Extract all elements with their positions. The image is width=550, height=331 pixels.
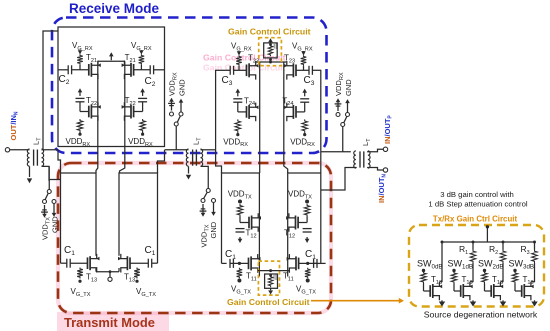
capacitor C1 b4 xyxy=(313,259,315,268)
switch node dot 2 xyxy=(483,269,486,272)
wire xfmr-box2 xyxy=(201,149,216,151)
ground arrow mid xfmr xyxy=(188,166,190,173)
capacitor gate T22 b xyxy=(138,97,147,99)
ac-ground arrow T12 b xyxy=(306,237,308,241)
wire R1 down xyxy=(472,242,474,250)
junction dot VG b4 xyxy=(306,279,310,283)
svg-text:GND: GND xyxy=(51,216,60,233)
transistor T23 b xyxy=(295,65,297,77)
wire res-T12 b xyxy=(306,217,308,223)
transistor T22 a xyxy=(88,106,90,118)
transistor T21 a xyxy=(88,64,90,76)
wire TX1 source cols xyxy=(95,268,97,272)
svg-text:3 dB gain control with: 3 dB gain control with xyxy=(440,190,514,199)
transistor T13 sw0 xyxy=(429,285,431,297)
capacitor T12 gate b xyxy=(303,228,312,230)
wire RX1 mid columns xyxy=(98,60,125,62)
TX cell2 right loop xyxy=(288,173,321,277)
capacitor C2 a xyxy=(67,65,69,74)
wire RX rail left xyxy=(42,149,59,151)
wire stub box2 right down xyxy=(320,150,322,173)
junction dot T24 a xyxy=(236,133,239,136)
wire res T24 b xyxy=(304,132,306,134)
gain control transistor mark (top) xyxy=(273,44,275,49)
wire C3b xyxy=(296,69,309,71)
junction dot rail 1 xyxy=(472,241,475,244)
wire panel rail xyxy=(442,241,535,243)
arrow to gain ctrl panel xyxy=(311,300,400,302)
bias dot VDD a xyxy=(238,200,242,204)
resistor source T24 b xyxy=(302,119,308,132)
resistor T11 bias a xyxy=(237,268,243,279)
transformer LT mid xyxy=(186,149,188,166)
svg-text:Source degeneration network: Source degeneration network xyxy=(424,310,538,320)
port OUT/IN terminal xyxy=(5,148,9,152)
wire RX1 col a down xyxy=(96,61,98,173)
resistor R1 xyxy=(470,250,476,264)
switch RX mid xyxy=(169,98,174,102)
resistor RG4 xyxy=(301,55,307,65)
transistor T13 b xyxy=(129,257,131,269)
resistor source T22 b xyxy=(140,119,146,132)
wire gate bias 4 xyxy=(303,66,305,71)
resistor T13a bias xyxy=(77,268,83,279)
transistor T24 a xyxy=(246,106,248,118)
wire C1-gate b4 xyxy=(314,262,326,264)
junction dot gc bottom xyxy=(269,269,272,272)
port IN/OUT P terminal xyxy=(383,147,387,151)
wire TX1 bottom rail xyxy=(96,271,119,273)
capacitor C3 b xyxy=(308,66,310,75)
transistor T22 b xyxy=(133,106,135,118)
wire sw-gate 0 xyxy=(423,284,425,292)
wire sw-gate 2 xyxy=(484,284,486,292)
transistor T13 sw1 xyxy=(460,285,462,297)
ac-ground arrow T24 a xyxy=(237,91,239,96)
switch node dot 0 xyxy=(422,269,425,272)
wire res b xyxy=(142,132,144,134)
wire port-left-xfmr xyxy=(10,149,30,151)
gain control dashed box (top) xyxy=(259,38,282,66)
transmit-mode highlight glow xyxy=(58,163,331,313)
junction dot VG a4 xyxy=(237,279,241,283)
resistor VDD b xyxy=(304,204,310,217)
resistor T13b bias xyxy=(134,268,140,279)
resistor source T24 a xyxy=(235,119,241,132)
wire feed up left xyxy=(42,31,59,150)
RX cell 1 outline xyxy=(58,27,165,147)
TX cell1 left loop xyxy=(61,173,97,263)
bias dot VDD b xyxy=(305,200,309,204)
wire C1a xyxy=(61,262,67,264)
wire C1-gate a4 xyxy=(222,262,227,264)
ground sw2 xyxy=(502,300,504,301)
wire cap-gate b xyxy=(142,102,144,112)
resistor SW1dB xyxy=(451,272,457,284)
wire res T24 a xyxy=(237,132,239,134)
gain control arrow (top) xyxy=(268,38,273,42)
ground sw1 xyxy=(472,300,474,301)
gain control inner rect (top) xyxy=(264,43,278,58)
switch node dot 1 xyxy=(452,269,455,272)
svg-text:Receive Mode: Receive Mode xyxy=(69,1,160,16)
capacitor C1 a xyxy=(66,259,68,268)
wire stub left edge down xyxy=(58,150,61,173)
wire C2a left xyxy=(58,69,68,71)
wire gc top to rail xyxy=(270,58,272,62)
svg-text:GND: GND xyxy=(344,79,353,96)
gain control dashed box (bottom) xyxy=(258,261,279,295)
transistor T13 sw2 xyxy=(490,285,492,297)
junction dot rail 2 xyxy=(502,241,505,244)
wire prim bottom right xyxy=(321,168,357,191)
ac-ground arrow T12 a xyxy=(239,237,241,241)
transistor T12 a xyxy=(248,217,250,229)
wire R2 down xyxy=(502,242,504,250)
wire panel feed xyxy=(486,227,488,242)
TX cell2 left loop xyxy=(222,173,260,277)
capacitor T12 gate a xyxy=(236,228,245,230)
wire prim bottom mid xyxy=(201,166,209,177)
Receive Mode dashed box xyxy=(52,18,327,154)
RF output arrow node RX1 xyxy=(110,55,112,61)
resistor RG3 xyxy=(236,55,242,65)
wire C2a right xyxy=(72,69,89,71)
wire drain sw3 xyxy=(531,281,535,283)
wire drain sw2 xyxy=(500,281,503,283)
svg-text:GND: GND xyxy=(178,79,187,96)
svg-text:Transmit Mode: Transmit Mode xyxy=(64,315,155,330)
wire gate bias 1 xyxy=(79,65,81,70)
junction dot gate a4 xyxy=(238,262,241,265)
ground sw0 xyxy=(441,300,443,301)
wire gate bias 3 xyxy=(238,66,240,71)
resistor T11 bias b xyxy=(305,268,311,279)
port IN/OUT N terminal xyxy=(383,168,387,172)
wire res-T12 a xyxy=(239,217,241,223)
ac-ground arrow T24 b xyxy=(304,91,306,96)
gain control transistor mark (bottom) xyxy=(273,275,275,280)
bias arrowhead 3 xyxy=(237,51,241,55)
junction dot rail xyxy=(269,61,272,64)
wire gate bias 2 xyxy=(140,65,142,70)
wire stub box2 left down xyxy=(216,150,222,173)
capacitor gate T22 a xyxy=(76,97,85,99)
junction dot rail 3 xyxy=(533,241,536,244)
wire cap-gate a xyxy=(79,102,81,112)
wire drain sw1 xyxy=(470,281,473,283)
switch node dot 3 xyxy=(513,269,516,272)
junction dot gate b4 xyxy=(306,262,309,265)
wire T11 source rail xyxy=(258,270,290,272)
resistor R3 xyxy=(532,250,538,264)
switch TX left xyxy=(42,214,47,218)
wire sec-bot right xyxy=(367,168,383,171)
wire cap-gate T24 b xyxy=(304,102,306,112)
bias arrowhead 4 xyxy=(301,51,305,55)
transistor T13 a xyxy=(87,257,89,269)
ground sw3 xyxy=(534,300,536,301)
wire drain sw0 xyxy=(439,281,442,283)
wire RX2 outer left xyxy=(215,70,217,150)
transistor T21 b xyxy=(133,64,135,76)
resistor SW3dB xyxy=(512,272,518,284)
resistor RG2 xyxy=(139,54,145,64)
svg-text:1 dB Step attenuation control: 1 dB Step attenuation control xyxy=(428,200,527,209)
gain control resistor (bottom) xyxy=(268,275,273,287)
transistor T24 b xyxy=(295,106,297,118)
gain control inner rect (bottom) xyxy=(265,274,278,288)
wire sw-left common xyxy=(48,166,50,181)
wire res a xyxy=(79,132,81,134)
ac-ground arrow T22 b xyxy=(142,91,144,96)
wire C1b xyxy=(152,262,158,264)
wire box2-xfmr right xyxy=(321,151,351,153)
wire RX2 col b down xyxy=(284,62,288,173)
transistor T23 a xyxy=(246,65,248,77)
wire RX2 outer right xyxy=(320,70,322,150)
wire C2b xyxy=(134,69,151,71)
resistor R2 xyxy=(500,250,506,264)
Transmit Mode dashed box xyxy=(58,163,331,313)
svg-text:GND: GND xyxy=(209,221,218,238)
ground arrow left xfmr xyxy=(29,166,31,177)
junction dot TX1 rail xyxy=(109,270,112,273)
resistor SW0dB xyxy=(421,272,427,284)
wire col0 down xyxy=(441,242,443,282)
transistor T13 sw3 xyxy=(521,285,523,297)
junction dot T24 b xyxy=(303,133,306,136)
junction dot VG b xyxy=(135,280,138,283)
wire cap-gate T24 a xyxy=(237,102,239,112)
wire sec-top right xyxy=(367,149,383,152)
junction dot gc bot a xyxy=(269,274,272,277)
junction dot b xyxy=(141,133,144,136)
capacitor C1 b xyxy=(147,259,149,268)
transistor T11 a xyxy=(248,258,250,270)
switch RX right xyxy=(336,98,341,102)
junction dot rail 0 xyxy=(441,241,444,244)
bias arrowhead 1 xyxy=(78,50,82,54)
svg-text:Tx/Rx Gain Ctrl Circuit: Tx/Rx Gain Ctrl Circuit xyxy=(433,215,518,224)
wire RX1 col b down xyxy=(120,61,125,173)
gain control arrow (bottom) xyxy=(270,288,272,290)
junction dot feed xyxy=(486,225,489,228)
transformer LT right xyxy=(354,151,356,168)
gain ctrl panel dashed box xyxy=(409,225,544,307)
wire R3 down xyxy=(534,242,536,250)
wire RX2 drain rail xyxy=(256,61,287,63)
capacitor gate T24 a xyxy=(233,98,242,100)
transformer LT left xyxy=(27,149,29,166)
svg-text:Gain Control Circuit: Gain Control Circuit xyxy=(227,297,310,307)
bias port TX1 xyxy=(109,272,111,277)
TX cell1 right loop xyxy=(119,173,158,263)
resistor RG1 xyxy=(77,54,83,64)
wire sw-left to cell xyxy=(49,179,60,181)
resistor SW2dB xyxy=(482,272,488,284)
resistor VDD a xyxy=(237,204,243,217)
wire RX2 mid columns xyxy=(259,62,261,173)
capacitor C3 a xyxy=(229,66,231,75)
wire box1-xfmr xyxy=(165,149,189,151)
junction dot VG a xyxy=(78,280,81,283)
capacitor gate T24 b xyxy=(300,98,309,100)
wire prim bottom left xyxy=(42,166,50,181)
wire stub right edge down xyxy=(158,150,165,173)
ac-ground arrow T22 a xyxy=(79,91,81,96)
junction dot gc top b xyxy=(269,58,272,61)
junction dot a xyxy=(78,133,81,136)
bias arrowhead 2 xyxy=(139,50,143,54)
junction dot gc top a xyxy=(269,43,272,46)
transistor T12 b xyxy=(297,217,299,229)
wire sw-gate 3 xyxy=(514,284,516,292)
transistor T11 b xyxy=(298,258,300,270)
capacitor C2 b xyxy=(149,65,151,74)
resistor source T22 a xyxy=(77,119,83,132)
gain control resistor (top) xyxy=(268,44,273,56)
capacitor C1 a4 xyxy=(229,259,231,268)
switch TX mid xyxy=(201,213,206,217)
wire C3a xyxy=(216,69,231,71)
svg-text:Gain Control Circuit: Gain Control Circuit xyxy=(228,27,311,37)
wire sw-gate 1 xyxy=(453,284,455,292)
